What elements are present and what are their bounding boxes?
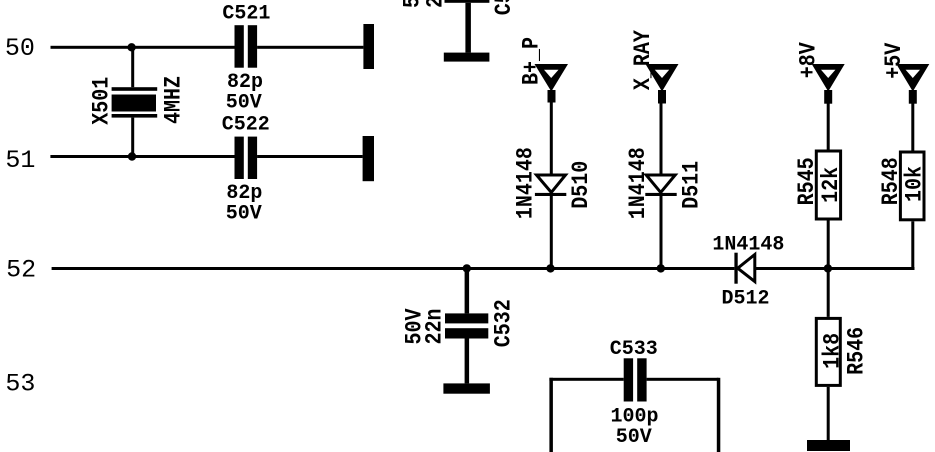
svg-text:10k: 10k	[902, 166, 928, 202]
svg-text:1k8: 1k8	[820, 333, 846, 369]
svg-text:D512: D512	[721, 288, 769, 311]
svg-text:52: 52	[6, 256, 36, 285]
svg-text:22n: 22n	[423, 0, 449, 8]
svg-text:1N4148: 1N4148	[626, 147, 652, 219]
svg-text:12k: 12k	[819, 167, 845, 203]
svg-text:50V: 50V	[226, 203, 262, 226]
svg-text:C531: C531	[492, 0, 518, 15]
svg-text:53: 53	[5, 369, 35, 398]
svg-text:22n: 22n	[422, 308, 448, 344]
svg-text:50: 50	[5, 34, 35, 63]
svg-text:50V: 50V	[616, 426, 652, 449]
svg-text:B+_P: B+_P	[520, 37, 546, 85]
svg-text:C532: C532	[491, 299, 517, 347]
svg-text:X501: X501	[90, 77, 116, 125]
svg-text:D511: D511	[679, 161, 705, 209]
svg-text:1N4148: 1N4148	[712, 234, 784, 257]
svg-text:R545: R545	[795, 157, 821, 205]
svg-text:1N4148: 1N4148	[514, 147, 540, 219]
svg-text:4MHZ: 4MHZ	[161, 76, 187, 124]
svg-text:+5V: +5V	[882, 43, 908, 79]
svg-text:51: 51	[5, 146, 35, 175]
svg-text:R546: R546	[845, 327, 871, 375]
svg-text:50V: 50V	[400, 0, 426, 8]
svg-text:+8V: +8V	[796, 42, 822, 78]
svg-text:50V: 50V	[226, 91, 262, 114]
svg-text:D510: D510	[569, 161, 595, 209]
svg-text:R548: R548	[879, 157, 905, 205]
svg-text:C521: C521	[222, 2, 270, 25]
svg-text:C533: C533	[610, 338, 658, 361]
svg-text:X_RAY: X_RAY	[631, 30, 657, 90]
svg-text:C522: C522	[222, 114, 270, 137]
